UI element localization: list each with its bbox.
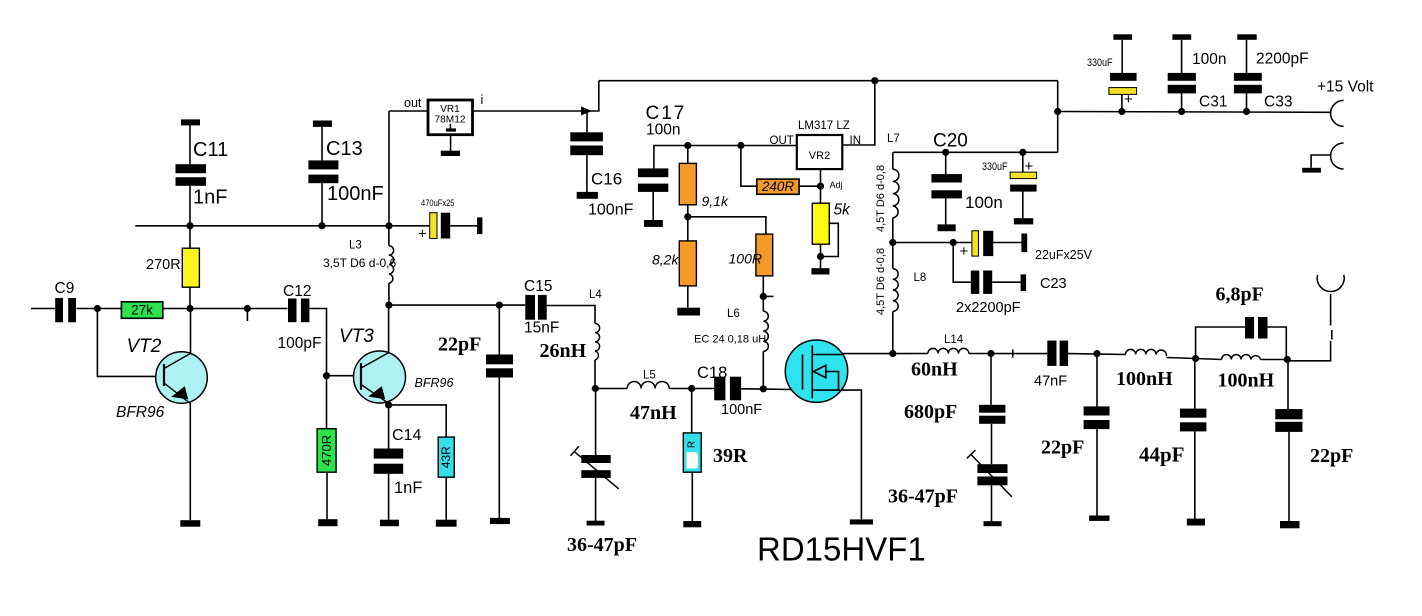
wire node A down to VT2 base xyxy=(97,309,164,377)
capacitor C31 xyxy=(1168,34,1196,93)
trimmer right arrow xyxy=(967,450,1012,497)
ground C14 xyxy=(380,520,399,527)
wire VR2 in riser xyxy=(842,81,875,145)
svg-text:47nH: 47nH xyxy=(630,402,677,424)
wire C33 top xyxy=(1246,40,1248,73)
wire C17 rail xyxy=(654,146,797,169)
wire 100nH1 to node xyxy=(1166,358,1195,359)
connector +15V jack xyxy=(1331,100,1344,126)
svg-text:OUT: OUT xyxy=(770,135,794,147)
wire L5 to C18 xyxy=(669,388,714,390)
wire C17 lower xyxy=(652,192,654,220)
capacitor C14 xyxy=(374,449,404,474)
capacitor 36-47pF trimmer left xyxy=(581,455,610,478)
wire VT2 emitter to ground xyxy=(189,403,191,521)
trimmer left arrow xyxy=(571,446,619,489)
svg-text:22pF: 22pF xyxy=(438,334,481,356)
ground 43R xyxy=(436,520,457,527)
wire 43R to ground xyxy=(445,477,447,520)
wire C13 lower xyxy=(321,183,323,226)
svg-text:270R: 270R xyxy=(146,257,181,273)
capacitor 22pF third xyxy=(1275,409,1302,432)
svg-text:C11: C11 xyxy=(193,139,228,161)
junction arrow at C16 xyxy=(581,107,592,116)
wire Adj to 5k xyxy=(820,186,822,203)
wire 240R riser xyxy=(741,146,757,187)
ground 22pF second xyxy=(1089,516,1109,521)
wire L8 top xyxy=(892,243,894,269)
svg-text:36-47pF: 36-47pF xyxy=(888,486,958,508)
wire 680pF riser xyxy=(990,354,992,405)
svg-text:C20: C20 xyxy=(933,131,968,152)
svg-text:BFR96: BFR96 xyxy=(415,376,454,390)
node B stub xyxy=(244,305,251,312)
svg-text:2x2200pF: 2x2200pF xyxy=(956,300,1021,316)
svg-text:26nH: 26nH xyxy=(540,340,587,362)
wire 680pF to trimmer2 xyxy=(991,424,993,464)
capacitor 44pF xyxy=(1180,409,1206,432)
transistor VT3 xyxy=(354,351,406,403)
svg-text:22uFx25V: 22uFx25V xyxy=(1035,248,1093,262)
svg-text:+: + xyxy=(418,226,427,243)
resistor 39R xyxy=(683,433,701,472)
inductor L5 xyxy=(627,381,669,388)
capacitor 6,8pF xyxy=(1245,317,1268,339)
svg-text:100n: 100n xyxy=(965,193,1003,212)
wire node to 100R xyxy=(688,217,766,234)
wire 270R bottom xyxy=(189,287,191,308)
wire 22uF to end bar xyxy=(993,242,1021,244)
node C20 xyxy=(942,149,949,156)
wire 22pF1 riser xyxy=(498,305,500,354)
inductor L8 xyxy=(893,269,898,312)
inductor L14 xyxy=(928,348,969,353)
svg-text:C16: C16 xyxy=(591,170,622,189)
ground 22pF first xyxy=(490,518,510,524)
node C13 rail xyxy=(318,222,325,229)
wire 6,8pF right riser xyxy=(1268,327,1287,360)
wire 5k bottom xyxy=(820,243,822,268)
capacitor C17 xyxy=(638,168,668,227)
electrolytic 470uFx25 xyxy=(430,213,483,239)
node 470uF rail xyxy=(385,222,392,229)
node VT3 emitter xyxy=(385,401,392,408)
wire 22pF1 to ground xyxy=(498,378,500,519)
wire 470uF to end bar xyxy=(450,225,477,227)
capacitor 680pF xyxy=(979,405,1005,424)
wire VR1 in to C16 corner xyxy=(472,81,599,111)
node 680pF xyxy=(987,350,994,357)
node C33 xyxy=(1243,108,1250,115)
node +15 corner xyxy=(1054,108,1061,115)
svg-text:+: + xyxy=(960,243,969,260)
svg-text:100pF: 100pF xyxy=(278,335,322,352)
wire L4 bottom xyxy=(594,360,596,389)
svg-text:+: + xyxy=(1124,91,1133,108)
wire MOSFET drain xyxy=(843,353,928,355)
capacitor C18 xyxy=(714,377,741,401)
wire C31 top xyxy=(1181,40,1183,73)
wire C16 riser xyxy=(586,111,588,132)
ground 470R xyxy=(318,519,337,526)
wire C23 to end bar xyxy=(992,281,1020,283)
svg-text:47nF: 47nF xyxy=(1034,374,1067,390)
svg-text:240R: 240R xyxy=(761,179,795,194)
MOSFET RD15HVF1 xyxy=(785,340,847,402)
wire 330uF-t lower xyxy=(1121,94,1123,111)
svg-text:VT2: VT2 xyxy=(127,336,162,357)
node L4 bottom xyxy=(592,385,599,392)
ground VT2 xyxy=(180,520,200,527)
wire C33 lower xyxy=(1246,93,1248,111)
wire C15 to L4 corner xyxy=(547,306,595,324)
svg-text:EC 24 0,18 uH: EC 24 0,18 uH xyxy=(694,334,766,346)
node 22uF C23 xyxy=(950,239,957,246)
wire output to antenna jack xyxy=(1287,294,1332,361)
wire trimmer1 riser xyxy=(595,389,597,456)
regulator VR2 LM317 xyxy=(797,135,843,169)
connector ground jack xyxy=(1331,143,1344,169)
node L3 bottom xyxy=(385,302,392,309)
svg-text:6,8pF: 6,8pF xyxy=(1216,284,1264,306)
svg-text:C9: C9 xyxy=(55,280,75,297)
svg-text:100R: 100R xyxy=(729,251,762,267)
resistor 27k xyxy=(121,302,162,319)
svg-text:22pF: 22pF xyxy=(1041,437,1084,459)
node C17 9,1k xyxy=(684,142,691,149)
wire 330uF-b lower xyxy=(1022,192,1024,219)
node 44pF xyxy=(1192,355,1199,362)
wire VR2 Adj xyxy=(820,169,822,186)
node 39R xyxy=(688,385,695,392)
resistor 470R xyxy=(317,429,336,473)
wire 5k wiper bracket xyxy=(821,223,839,256)
wire C18 to gate xyxy=(741,388,792,391)
svg-text:39R: 39R xyxy=(713,445,748,467)
wire VT3 collector xyxy=(388,305,390,352)
svg-text:L4: L4 xyxy=(589,289,602,301)
wire 22pF2 riser xyxy=(1096,354,1098,407)
svg-text:100nH: 100nH xyxy=(1116,368,1173,390)
wire C20 lower xyxy=(945,198,947,224)
ground trimmer right xyxy=(984,521,1002,526)
svg-text:C18: C18 xyxy=(697,364,727,382)
node VT3 base xyxy=(323,372,330,379)
wire C11 riser xyxy=(189,125,191,164)
svg-text:4,5T D6 d-0,8: 4,5T D6 d-0,8 xyxy=(875,165,887,232)
wire 44pF to ground xyxy=(1194,431,1196,519)
wire C11 lower xyxy=(189,186,191,226)
resistor 5k xyxy=(812,203,829,244)
wire 22pF3 riser xyxy=(1287,360,1289,410)
svg-text:4,5T D6 d-0,8: 4,5T D6 d-0,8 xyxy=(875,248,887,315)
wire +15V rail xyxy=(1058,111,1331,114)
svg-text:L5: L5 xyxy=(643,370,656,382)
svg-text:60nH: 60nH xyxy=(911,359,958,381)
svg-text:22pF: 22pF xyxy=(1310,445,1353,467)
svg-text:C12: C12 xyxy=(283,283,311,300)
svg-text:470uFx25: 470uFx25 xyxy=(421,198,455,209)
svg-text:1nF: 1nF xyxy=(394,479,422,497)
svg-text:C31: C31 xyxy=(1199,94,1227,111)
resistor 8,2k xyxy=(679,241,696,286)
svg-text:1nF: 1nF xyxy=(193,187,227,209)
ground power jack xyxy=(1302,168,1321,173)
inductor L3 xyxy=(389,246,394,283)
wire 27k to C12 xyxy=(163,308,288,310)
wire L14 to 47nF xyxy=(969,353,1048,355)
resistor 270R xyxy=(182,248,199,287)
wire VR1 ground lead xyxy=(450,135,452,151)
wire C14 to ground xyxy=(388,474,390,520)
wire VR1 out to left xyxy=(389,110,427,112)
svg-text:100nF: 100nF xyxy=(588,202,634,219)
ground MOSFET source xyxy=(850,519,873,524)
svg-text:3,5T D6 d-0,6: 3,5T D6 d-0,6 xyxy=(323,256,396,270)
svg-text:Adj: Adj xyxy=(830,180,843,190)
wire 100R bottom to L6 xyxy=(762,276,764,311)
svg-text:27k: 27k xyxy=(131,303,153,318)
resistor 240R xyxy=(757,179,799,194)
svg-text:C23: C23 xyxy=(1040,276,1067,292)
wire stub below node B xyxy=(246,309,248,322)
wire 8,2k to ground xyxy=(687,286,689,308)
wire 44pF riser xyxy=(1194,359,1196,409)
svg-text:43R: 43R xyxy=(439,446,453,468)
wire 22pF2 to ground xyxy=(1096,429,1098,516)
transistor VT2 xyxy=(156,352,208,404)
node output xyxy=(1284,356,1291,363)
wire top rail xyxy=(599,80,1058,82)
wire upper rail y226 xyxy=(135,225,389,227)
svg-text:100nH: 100nH xyxy=(1218,370,1275,392)
svg-text:LM317 LZ: LM317 LZ xyxy=(798,120,850,132)
electrolytic 22uFx25V xyxy=(972,231,1027,256)
wire 470R to ground xyxy=(326,472,328,520)
wire C12 to VT3 base xyxy=(310,309,362,376)
resistor 9,1k xyxy=(679,163,696,204)
resistor 100R xyxy=(756,234,773,276)
electrolytic 330uF top xyxy=(1109,34,1137,94)
wire 47nF to 100nH xyxy=(1068,353,1125,356)
svg-text:9,1k: 9,1k xyxy=(702,193,729,209)
svg-text:IN: IN xyxy=(850,135,862,147)
wire stub at L6 node xyxy=(763,295,773,297)
capacitor C23 2x2200pF xyxy=(971,271,1026,294)
capacitor C12 xyxy=(288,299,309,323)
node top rail VR2 xyxy=(871,77,878,84)
wire C16 lower xyxy=(586,155,588,192)
svg-text:15nF: 15nF xyxy=(524,320,559,337)
node 330uF-b xyxy=(1019,149,1026,156)
capacitor C13 xyxy=(308,121,338,184)
svg-text:44pF: 44pF xyxy=(1139,443,1185,467)
svg-text:VR1: VR1 xyxy=(440,104,460,115)
svg-text:+: + xyxy=(1025,158,1034,175)
wire MOSFET source xyxy=(840,390,861,519)
svg-text:100nF: 100nF xyxy=(721,402,762,418)
svg-text:L6: L6 xyxy=(727,308,740,320)
capacitor 47nF xyxy=(1047,341,1068,366)
svg-text:330uF: 330uF xyxy=(1087,57,1113,69)
svg-text:36-47pF: 36-47pF xyxy=(567,534,637,556)
regulator VR1 78M12 xyxy=(428,100,473,135)
node L6 top xyxy=(760,293,767,300)
svg-text:5k: 5k xyxy=(834,202,852,219)
wire 9,1k top xyxy=(687,146,689,164)
resistor 43R xyxy=(438,437,454,477)
svg-text:2200pF: 2200pF xyxy=(1256,51,1309,68)
wire feed rail right vertical xyxy=(1057,81,1059,153)
node 240R riser xyxy=(737,142,744,149)
wire L8 bottom xyxy=(892,311,894,353)
svg-text:out: out xyxy=(404,96,422,110)
node 9,1k 8,2k xyxy=(684,213,691,220)
inductor L4 xyxy=(595,323,600,360)
ground 8,2k xyxy=(677,308,700,316)
inductor L6 xyxy=(763,311,768,351)
wire L4 node to L5 xyxy=(595,388,627,390)
capacitor C9 xyxy=(55,298,76,322)
node L7 L8 xyxy=(889,239,896,246)
wire L7 rail xyxy=(893,151,1057,153)
wire L7 bottom xyxy=(892,218,894,243)
wire C20 riser xyxy=(945,152,947,174)
capacitor C15 xyxy=(525,295,546,320)
svg-text:L7: L7 xyxy=(887,133,900,145)
wire ground jack lead xyxy=(1311,155,1331,168)
wire L7 top xyxy=(892,152,894,169)
node A C9-27k xyxy=(94,305,101,312)
wire C23 branch xyxy=(953,243,971,283)
svg-text:470R: 470R xyxy=(319,435,334,466)
wire trimmer2 to ground xyxy=(991,485,993,521)
svg-text:100n: 100n xyxy=(646,122,680,139)
wire VT2 collector xyxy=(190,309,192,354)
node gate xyxy=(760,385,767,392)
inductor 100nH second xyxy=(1222,355,1261,360)
svg-text:C15: C15 xyxy=(524,278,552,295)
svg-text:R: R xyxy=(687,441,698,448)
ground 22pF third xyxy=(1280,521,1300,528)
node 330uF-t xyxy=(1118,108,1125,115)
wire 9,1k bottom xyxy=(687,205,689,241)
wire node to 100nH2 xyxy=(1196,359,1222,360)
svg-text:C13: C13 xyxy=(326,138,363,160)
svg-text:L14: L14 xyxy=(944,334,964,346)
svg-text:100nF: 100nF xyxy=(327,183,384,205)
svg-text:VR2: VR2 xyxy=(809,150,830,162)
wire 22pF3 to ground xyxy=(1288,432,1290,521)
wire C9 to 27k xyxy=(77,308,122,310)
wire 330uF-t top xyxy=(1121,40,1123,73)
svg-text:100n: 100n xyxy=(1192,51,1226,68)
wire 470uF from node xyxy=(389,225,430,227)
capacitor C33 xyxy=(1234,34,1262,93)
wire VT3 base node to 470R xyxy=(326,376,328,429)
ground 39R xyxy=(683,521,701,527)
wire L6 bottom xyxy=(762,351,764,389)
svg-text:+15 Volt: +15 Volt xyxy=(1317,79,1374,96)
node 22pF1 xyxy=(496,302,503,309)
wire C13 riser xyxy=(321,127,323,161)
capacitor 22pF second xyxy=(1084,406,1110,429)
wire 39R riser xyxy=(691,389,693,433)
wire stub on drain rail xyxy=(1012,350,1014,358)
wire VT3 emitter to 43R xyxy=(389,405,447,437)
node 5k bottom xyxy=(817,253,824,260)
svg-text:C14: C14 xyxy=(392,427,421,444)
inductor 100nH first xyxy=(1126,349,1167,356)
capacitor C20 xyxy=(931,174,962,231)
svg-text:VT3: VT3 xyxy=(339,326,374,347)
electrolytic 330uF near C20 xyxy=(1010,172,1037,224)
node 22pF2 xyxy=(1093,350,1100,357)
wire 270R top xyxy=(189,226,191,248)
capacitor 22pF first xyxy=(486,355,513,378)
wire VT3 emitter to C14 xyxy=(388,403,390,449)
wire 6,8pF left riser xyxy=(1196,327,1245,359)
wire out riser down xyxy=(388,111,390,226)
wire 100nH2 to node xyxy=(1261,359,1288,361)
inductor L7 xyxy=(893,169,899,218)
wire 240R to Adj node xyxy=(799,185,820,187)
wire L3 top xyxy=(388,226,390,246)
node Adj xyxy=(817,183,824,190)
wire input to C9 xyxy=(31,308,55,310)
ground 5k xyxy=(811,268,829,274)
node 270R bottom xyxy=(186,305,193,312)
capacitor C11 xyxy=(176,119,207,185)
wire decoupling row xyxy=(893,242,972,244)
node C11 rail xyxy=(186,222,193,229)
svg-text:i: i xyxy=(481,93,484,107)
svg-text:680pF: 680pF xyxy=(904,401,957,423)
wire L3 bottom xyxy=(388,283,390,305)
svg-text:C33: C33 xyxy=(1264,94,1292,111)
capacitor C16 xyxy=(570,132,603,198)
capacitor 36-47pF trimmer right xyxy=(977,464,1007,485)
ground VR1 xyxy=(441,151,460,156)
wire C31 lower xyxy=(1181,93,1183,111)
svg-text:L3: L3 xyxy=(349,240,362,252)
wire 330uF-b riser xyxy=(1022,152,1024,172)
ground 44pF xyxy=(1187,519,1205,526)
wire trimmer1 to ground xyxy=(595,478,597,521)
svg-text:330uF: 330uF xyxy=(982,161,1008,173)
wire rail y305 xyxy=(389,304,525,306)
node drain L8 xyxy=(889,350,896,357)
svg-text:BFR96: BFR96 xyxy=(116,404,165,421)
wire 39R to ground xyxy=(691,472,693,521)
svg-text:L8: L8 xyxy=(914,272,927,284)
svg-text:RD15HVF1: RD15HVF1 xyxy=(757,531,926,568)
node C31 xyxy=(1178,108,1185,115)
connector antenna jack xyxy=(1317,275,1344,292)
svg-text:8,2k: 8,2k xyxy=(652,252,679,268)
ground trimmer left xyxy=(587,521,605,526)
